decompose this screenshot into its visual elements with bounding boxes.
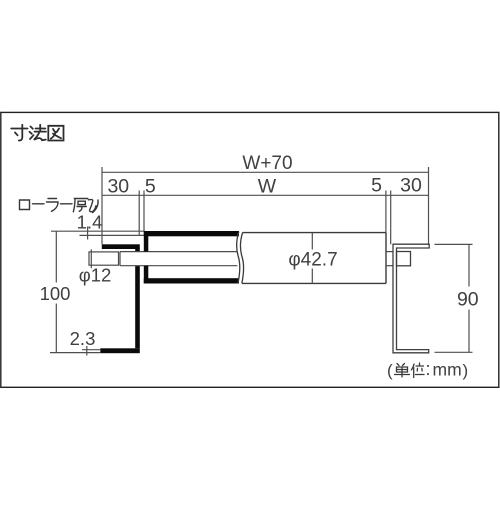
svg-text:W: W xyxy=(258,176,277,198)
svg-text:90: 90 xyxy=(457,289,479,311)
label 5 left xyxy=(145,175,156,197)
drawing frame border xyxy=(1,112,499,387)
extension line bottom (y=352.6) xyxy=(50,352,100,354)
label phi12 xyxy=(79,265,112,286)
dimension line 100 xyxy=(55,231,57,352)
extension line roller wall bottom (y=235.4) xyxy=(80,234,144,236)
shaft right stub xyxy=(386,252,397,266)
top dimension extension line right (x=428.5) xyxy=(428,167,430,244)
svg-text:30: 30 xyxy=(400,174,422,196)
svg-text:30: 30 xyxy=(107,175,129,197)
extension line x=144 xyxy=(143,191,145,232)
roller right part bottom line xyxy=(242,282,386,284)
dimension line 1.4 xyxy=(87,227,89,240)
top dimension extension line left (x=102) xyxy=(101,167,103,244)
shaft left end piece (phi12) xyxy=(89,252,119,265)
svg-text:5: 5 xyxy=(371,174,382,196)
roller right end line xyxy=(385,233,387,284)
dimension line phi12 xyxy=(90,249,92,268)
roller left end cap (thick, interrupted by shaft) xyxy=(144,231,149,284)
extension line 90 top (y=244.4) xyxy=(435,243,473,245)
roller tube cut section bottom wall (thick) xyxy=(144,278,239,283)
shaft main (through frame into roller) xyxy=(120,252,237,266)
label (単位:mm) xyxy=(387,359,468,380)
svg-text:mm: mm xyxy=(433,360,462,380)
extension line x=390.7 xyxy=(390,191,392,245)
svg-text:φ12: φ12 xyxy=(79,265,112,286)
svg-text:W+70: W+70 xyxy=(242,153,292,174)
label 90 xyxy=(457,289,479,311)
dimension line W+70 xyxy=(102,171,429,173)
label 100 xyxy=(40,283,71,304)
left frame top flange (black) xyxy=(102,244,140,249)
svg-text:φ42.7: φ42.7 xyxy=(288,249,337,270)
bearing block square xyxy=(397,252,411,266)
label 5 right xyxy=(371,174,382,196)
break wavy line left (cut section end) xyxy=(237,232,240,283)
roller right part top line xyxy=(243,232,387,234)
title 寸法図 xyxy=(11,125,63,141)
label 30 left xyxy=(107,175,129,197)
svg-text:100: 100 xyxy=(40,283,71,304)
svg-text::: : xyxy=(426,359,431,379)
dimension line 90 xyxy=(468,244,470,352)
svg-text:): ) xyxy=(463,361,469,380)
left frame web (black, interrupted by shaft) xyxy=(135,249,140,348)
svg-text:(: ( xyxy=(387,361,393,380)
label phi42.7 xyxy=(288,249,337,270)
label ローラー厚み xyxy=(20,199,99,213)
extension line 2.3 top (y=349.7) xyxy=(82,349,100,351)
label W+70 xyxy=(242,153,292,174)
dimension line phi42.7 xyxy=(311,233,313,283)
svg-text:1.4: 1.4 xyxy=(77,211,103,232)
extension line roller wall top (y=231.2) xyxy=(51,230,144,232)
label W xyxy=(258,176,277,198)
svg-text:2.3: 2.3 xyxy=(70,328,96,349)
left frame bottom flange (black) xyxy=(100,348,140,353)
label 30 right xyxy=(400,174,422,196)
right frame channel outline xyxy=(393,244,429,353)
label 1.4 xyxy=(77,211,103,232)
roller tube cut section top wall (thick) xyxy=(144,231,239,236)
dimension line 2.3 xyxy=(86,346,88,356)
svg-text:5: 5 xyxy=(145,175,156,197)
dimension line 30/5/W/5/30 xyxy=(102,194,429,196)
extension line x=385.9 xyxy=(385,191,387,233)
break wavy line right (outer section end) xyxy=(240,233,243,284)
extension line x=139.2 xyxy=(138,191,140,236)
extension line 90 bottom (y=352.3) xyxy=(435,351,473,353)
label 2.3 xyxy=(70,328,96,349)
